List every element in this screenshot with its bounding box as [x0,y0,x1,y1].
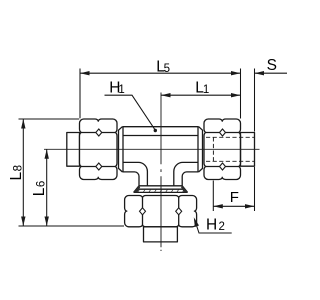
branch outer walls with fillets [122,172,198,186]
left tube stub [67,133,80,167]
dimension S [255,69,288,132]
branch collar cone seat [134,186,188,193]
svg-text:S: S [267,57,277,74]
female threaded end [144,227,178,242]
bottom branch nut [125,196,197,227]
collar hatching [138,189,185,192]
tee body with end flanges [119,127,203,172]
dimension L5 [80,69,241,119]
leader H2 [195,220,232,234]
horizontal centerline [44,148,260,150]
hidden thread dashed lines [206,137,254,161]
vertical centerline [160,93,162,252]
left compression nut [80,119,118,180]
collar end wedges [134,186,188,193]
dimension L1 [161,94,241,96]
facet diamonds bottom nut [140,208,182,215]
facet diamonds right nut [220,129,226,170]
right tube stub [241,133,255,167]
right compression nut [204,119,241,180]
facet diamonds left nut [96,129,102,170]
svg-text:F: F [230,189,239,206]
dimension L6 [46,149,48,226]
branch inner facet lines with fillets [123,162,198,185]
leader H1 [105,95,156,130]
dimension F [213,167,254,211]
dimension L8 [19,119,125,226]
